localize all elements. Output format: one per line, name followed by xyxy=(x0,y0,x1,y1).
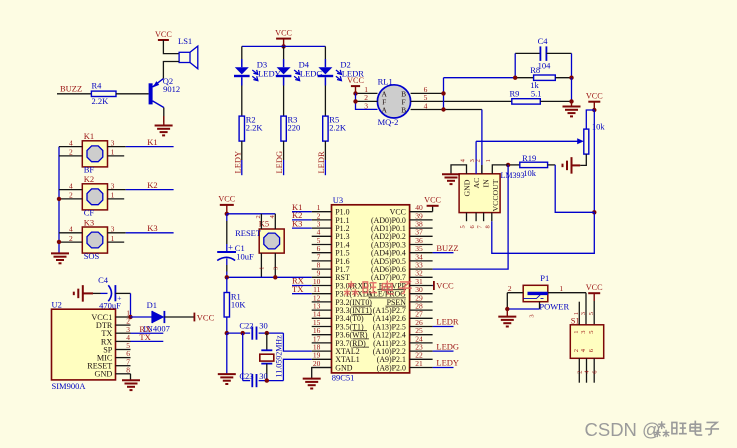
U3 pin 3 (P1.2) xyxy=(312,220,350,234)
ground (Q2 collector) xyxy=(155,116,173,135)
svg-text:21: 21 xyxy=(415,359,423,368)
U3 pin 6 (P1.5) xyxy=(312,244,350,258)
wire R3 to net label LEDG xyxy=(283,141,285,160)
wire VCC to potentiometer xyxy=(586,110,594,129)
svg-text:1: 1 xyxy=(573,312,580,315)
resistor R1 10K xyxy=(224,277,246,333)
wire BUZZ to R4 xyxy=(57,93,91,95)
junction C1 bottom xyxy=(225,275,229,279)
pushbutton K2 (CF) xyxy=(82,174,107,217)
svg-text:A: A xyxy=(381,105,387,114)
net label RX wire xyxy=(292,276,312,286)
svg-text:VCCOUT: VCCOUT xyxy=(491,179,500,211)
U3 pin 20 (GND) xyxy=(312,359,353,373)
svg-text:POWER: POWER xyxy=(539,302,569,312)
S1 top pin stubs xyxy=(573,302,595,334)
wire VCC rail down to R19 node xyxy=(593,110,595,212)
svg-text:(A8)P2.0: (A8)P2.0 xyxy=(377,363,406,372)
wire rail to D3 xyxy=(241,46,243,59)
svg-text:3: 3 xyxy=(273,267,280,270)
wire LM393 out to 89C51 pin33 xyxy=(433,165,509,269)
svg-text:VCC: VCC xyxy=(586,92,603,101)
svg-text:2: 2 xyxy=(69,191,73,200)
junction VCC / R19 xyxy=(592,210,596,214)
junction C23 branch xyxy=(241,331,245,335)
junction K3 rail xyxy=(57,240,61,244)
U3 pin 32 ((AD7)P0.7) xyxy=(371,269,433,283)
module U2 SIM900A xyxy=(52,299,116,390)
svg-text:LEDR: LEDR xyxy=(436,317,459,327)
svg-text:GND: GND xyxy=(463,179,472,196)
svg-text:C4: C4 xyxy=(538,36,549,46)
wire K2 pin4 xyxy=(59,189,82,191)
pin numbers K3 left xyxy=(69,225,73,243)
svg-text:5.1: 5.1 xyxy=(531,89,542,99)
U3 pin 12 (P3.2(INT0)) xyxy=(312,293,373,307)
wire P1 pin1 to S1 xyxy=(548,284,586,325)
svg-text:2: 2 xyxy=(577,370,584,373)
svg-text:1: 1 xyxy=(559,284,563,293)
wire crystal bottom to XTAL1 xyxy=(283,359,311,380)
K5 top pin stubs xyxy=(255,214,276,229)
ground (button rail) xyxy=(51,253,69,263)
wire MQ-2 pin2 xyxy=(356,100,378,102)
U3 pin 10 (P3.0(RXD)) xyxy=(312,277,372,291)
junction pin4 vertical xyxy=(441,107,445,111)
connector P1 POWER xyxy=(523,273,569,311)
svg-text:LEDG: LEDG xyxy=(436,341,459,351)
wire button common rail xyxy=(58,147,60,254)
wire C22 to crystal top node xyxy=(259,332,284,334)
pin numbers K2 left xyxy=(69,181,73,199)
LED D4 LEDG xyxy=(276,59,323,86)
resistor R3 220 xyxy=(281,114,300,141)
svg-text:1: 1 xyxy=(259,267,266,270)
LED D3 LEDY xyxy=(234,59,281,86)
LM393 bottom pin stubs xyxy=(467,213,492,222)
capacitor C22 30 xyxy=(239,321,267,340)
U3 pin 8 (P1.7) xyxy=(312,261,350,275)
svg-text:C4: C4 xyxy=(98,275,109,285)
wire rail to D4 xyxy=(283,46,285,59)
U3 pin 1 (P1.0) xyxy=(312,203,350,217)
net label K3 xyxy=(147,223,157,233)
wire crystal top rail xyxy=(227,332,250,334)
pin numbers K1 left xyxy=(69,138,73,156)
wire K3 pin3 to net label xyxy=(108,232,126,234)
power symbol VCC (MQ-2) xyxy=(347,76,364,94)
resistor R4 2.2K xyxy=(91,81,116,106)
svg-text:11.0592MHz: 11.0592MHz xyxy=(275,335,284,378)
svg-text:K3: K3 xyxy=(84,217,94,227)
capacitor C4 470uF (electrolytic) xyxy=(93,275,131,311)
U3 pin 36 ((AD3)P0.3) xyxy=(371,236,433,250)
wire VCC node to K5 xyxy=(227,213,275,215)
svg-text:5: 5 xyxy=(459,225,466,228)
net label BUZZ (pin35) xyxy=(433,243,459,253)
svg-text:2: 2 xyxy=(475,159,482,162)
wire R5 to net label LEDR xyxy=(324,141,326,160)
svg-text:3: 3 xyxy=(111,138,115,147)
LM393 bottom pin numbers xyxy=(459,225,491,229)
U3 pin 35 ((AD4)P0.4) xyxy=(371,244,433,258)
U3 pin 13 (P3.3(INT1)) xyxy=(312,302,373,316)
ground (U2 GND) xyxy=(122,374,140,390)
net label LEDG (pin23) xyxy=(433,341,459,351)
wire MQ-2 pin5 to R9 xyxy=(411,100,512,102)
pin numbers K3 right xyxy=(111,225,115,243)
junction U2 pin1 xyxy=(128,315,132,319)
svg-text:IN: IN xyxy=(482,179,491,188)
power symbol VCC (reset) xyxy=(218,195,235,214)
junction crystal top xyxy=(265,331,269,335)
svg-text:S1: S1 xyxy=(571,316,580,326)
svg-text:U2: U2 xyxy=(52,299,62,309)
svg-text:TX: TX xyxy=(292,284,303,294)
net label VCC (pin31) xyxy=(433,281,454,291)
svg-text:1: 1 xyxy=(111,148,115,157)
net label RX wire (U2 TX) xyxy=(131,324,164,334)
U3 pin 22 ((A9)P2.1) xyxy=(377,351,433,365)
svg-text:1: 1 xyxy=(485,159,492,162)
resistor R9 5.1 xyxy=(510,89,572,105)
U2 pin 5 (SP) xyxy=(103,341,130,354)
speaker LS1 xyxy=(178,36,198,69)
svg-text:U3: U3 xyxy=(333,195,343,205)
switch S1 xyxy=(570,316,603,359)
wire D2 to R5 xyxy=(324,86,326,117)
wiper arrow xyxy=(577,138,584,144)
watermark red text xyxy=(344,280,412,296)
wire LM393 pin1 to R19 node xyxy=(492,165,508,174)
svg-text:VCC: VCC xyxy=(155,30,172,39)
svg-text:2.2K: 2.2K xyxy=(329,123,347,133)
K5 bottom pin stubs xyxy=(259,253,280,277)
svg-text:GND: GND xyxy=(95,370,113,379)
junction MQ-2 pin1 xyxy=(353,91,357,95)
wire K3 pin2 xyxy=(59,241,82,243)
svg-text:B: B xyxy=(401,105,406,114)
svg-text:C22: C22 xyxy=(239,321,253,331)
resistor R8 1k xyxy=(515,65,571,90)
svg-text:LS1: LS1 xyxy=(178,36,192,46)
capacitor C23 30 xyxy=(239,371,267,387)
wire K1 pin2 xyxy=(59,155,82,157)
wire wiper to LM393 AC xyxy=(476,140,579,142)
svg-text:3: 3 xyxy=(364,101,368,110)
wire C23 branch vertical xyxy=(242,333,244,381)
net label TX wire (U2 RX) xyxy=(131,332,164,342)
svg-text:2: 2 xyxy=(508,284,512,293)
svg-text:C23: C23 xyxy=(239,371,253,381)
svg-text:1: 1 xyxy=(111,191,115,200)
net label LEDR (vertical) xyxy=(316,151,326,174)
U3 pin 37 ((AD2)P0.2) xyxy=(371,228,433,242)
wire D3 to R2 xyxy=(241,86,243,117)
U3 pin 11 (P3.1(TXD)) xyxy=(312,285,372,299)
wire rail to D2 xyxy=(324,46,326,59)
U3 pin 4 (P1.3) xyxy=(312,228,350,242)
LED D2 LEDR xyxy=(318,59,365,86)
svg-text:4: 4 xyxy=(424,101,428,110)
net label TX wire xyxy=(292,284,312,294)
wire R19 right to VCC rail xyxy=(555,165,594,212)
U3 pin 27 ((A14)P2.6) xyxy=(373,310,433,324)
wire D4 to R3 xyxy=(283,86,285,117)
U3 pin 30 (ALE/PROG) xyxy=(367,285,432,299)
U2 pin 6 (MIC) xyxy=(97,349,131,362)
wire loop rail to R8/C4 xyxy=(444,77,516,79)
U2 pin 7 (RESET) xyxy=(87,357,130,370)
svg-text:TX: TX xyxy=(139,332,150,342)
U3 pin 25 ((A12)P2.4) xyxy=(373,326,433,340)
power symbol VCC (speaker supply) xyxy=(155,30,172,40)
svg-text:5: 5 xyxy=(588,331,595,334)
svg-text:3: 3 xyxy=(111,181,115,190)
svg-text:30: 30 xyxy=(259,321,268,331)
wire P1 pin2 to ground xyxy=(507,284,523,309)
svg-text:VCC: VCC xyxy=(197,312,215,322)
wire MQ-2 pin6 xyxy=(411,92,444,94)
pin numbers K2 right xyxy=(111,181,115,199)
wire VCC to speaker pin1 xyxy=(163,40,179,54)
svg-text:10K: 10K xyxy=(231,299,247,309)
svg-text:K2: K2 xyxy=(84,174,94,184)
junction VCC reset xyxy=(225,212,229,216)
wire reset node to U3 RST xyxy=(227,276,312,278)
wire C23 to crystal bottom node xyxy=(259,380,284,382)
U2 pin 1 (VCC1) xyxy=(91,309,130,322)
gas sensor RL1 MQ-2 xyxy=(377,76,410,127)
svg-text:5: 5 xyxy=(588,312,595,315)
svg-text:BUZZ: BUZZ xyxy=(60,84,82,94)
U3 pin 28 ((A15)P2.7) xyxy=(373,302,433,316)
net label K3 wire xyxy=(292,218,312,228)
wire MQ-2 pin1 to VCC xyxy=(356,92,378,94)
svg-text:VCC: VCC xyxy=(586,283,603,292)
junction VCC LED rail xyxy=(281,44,285,48)
U3 overline marks xyxy=(353,290,406,347)
pin numbers K1 right xyxy=(111,138,115,156)
AC ground (pot bottom) xyxy=(563,157,581,174)
U3 pin 38 ((AD1)P0.1) xyxy=(371,220,433,234)
junction R8 left xyxy=(513,76,517,80)
wire C4 left leg xyxy=(514,53,516,77)
wire K1 pin4 xyxy=(59,146,82,148)
junction R1 bottom / crystal rail xyxy=(225,331,229,335)
svg-text:VCC: VCC xyxy=(347,76,364,85)
svg-text:8: 8 xyxy=(485,225,492,228)
diode D1 1N4007 xyxy=(131,300,195,334)
wire C4 to U2 VCC1 xyxy=(130,293,132,317)
resistor R19 10k xyxy=(508,153,555,178)
junction P1 ground node xyxy=(505,307,509,311)
wire K3 pin1 stub xyxy=(108,241,125,243)
svg-text:8: 8 xyxy=(126,365,130,374)
svg-text:BF: BF xyxy=(84,165,95,175)
svg-text:2: 2 xyxy=(69,234,73,243)
svg-text:BUZZ: BUZZ xyxy=(436,243,458,253)
AC ground (C4 input) xyxy=(74,285,93,302)
U3 pin 9 (RST) xyxy=(312,269,350,283)
U3 pin 34 ((AD5)P0.5) xyxy=(371,252,433,266)
svg-text:3: 3 xyxy=(580,312,587,315)
U2 pin 4 (RX) xyxy=(101,333,131,346)
svg-text:LEDY: LEDY xyxy=(232,151,242,174)
wire MQ-2 pin4 xyxy=(411,109,482,111)
svg-text:VCC: VCC xyxy=(424,196,441,205)
junction K5 pin3 xyxy=(273,275,277,279)
svg-text:P1: P1 xyxy=(540,273,549,283)
svg-text:RL1: RL1 xyxy=(378,76,393,86)
svg-text:4: 4 xyxy=(69,181,73,190)
svg-text:1: 1 xyxy=(111,234,115,243)
wire crystal top to XTAL2 xyxy=(283,333,311,351)
U2 pin 2 (DTR) xyxy=(96,317,131,330)
U3 pin 5 (P1.4) xyxy=(312,236,350,250)
svg-text:+: + xyxy=(228,243,233,253)
power symbol VCC (S1) xyxy=(586,283,603,325)
pushbutton K5 RESET xyxy=(235,219,284,254)
wire U3 pin20 GND to ground xyxy=(312,368,332,379)
wire LED supply rail xyxy=(242,45,326,47)
svg-text:VCC: VCC xyxy=(218,195,235,204)
wire Q2 collector to ground xyxy=(163,108,165,123)
junction R19 left node xyxy=(506,163,510,167)
svg-text:K1: K1 xyxy=(147,137,157,147)
net label LEDR (pin26) xyxy=(433,317,459,327)
wire pin6/pin4 vertical to feedback loop xyxy=(443,78,445,110)
svg-text:89C51: 89C51 xyxy=(332,373,355,383)
svg-text:10uF: 10uF xyxy=(236,252,254,262)
svg-text:4: 4 xyxy=(69,225,73,234)
wire R2 to net label LEDY xyxy=(241,141,243,160)
potentiometer 10k xyxy=(584,121,606,154)
net label K1 xyxy=(147,137,157,147)
svg-text:2.2K: 2.2K xyxy=(246,123,264,133)
wire K1 pin3 to net label xyxy=(108,146,126,148)
power symbol VCC (comparator rail) xyxy=(586,92,603,111)
svg-text:+: + xyxy=(117,293,121,302)
svg-text:SOS: SOS xyxy=(84,251,100,261)
U3 pin 21 ((A8)P2.0) xyxy=(377,359,433,373)
crystal Y1 11.0592MHz xyxy=(260,333,284,381)
junction VCC rail top xyxy=(592,108,596,112)
pushbutton K3 (SOS) xyxy=(82,217,107,260)
svg-text:2: 2 xyxy=(69,148,73,157)
S1 bottom pin stubs xyxy=(573,348,599,382)
resistor R5 2.2K xyxy=(323,114,347,141)
svg-text:1: 1 xyxy=(573,331,580,334)
U3 pin 39 ((AD0)P0.0) xyxy=(371,211,433,225)
U3 pin 17 (P3.7(RD)) xyxy=(312,334,366,348)
wire speaker pin2 to Q2 emitter xyxy=(163,62,179,79)
transistor Q2 9012 (PNP) xyxy=(151,76,181,108)
resistor R2 2.2K xyxy=(239,114,263,141)
svg-text:CF: CF xyxy=(84,208,95,218)
svg-text:2: 2 xyxy=(573,349,580,352)
wire C4 right leg xyxy=(571,53,573,77)
svg-text:K3: K3 xyxy=(147,223,157,233)
U3 pin 31 (EA/VPP) xyxy=(379,277,433,291)
pin numbers MQ-2 right xyxy=(424,85,428,110)
ground (LM393 GND) xyxy=(442,174,460,184)
wire R8/R9 right junction xyxy=(571,78,573,102)
svg-text:R19: R19 xyxy=(522,153,536,163)
LM393 top pin numbers xyxy=(459,158,492,162)
U3 pin 24 ((A11)P2.3) xyxy=(373,334,433,348)
svg-text:LM393: LM393 xyxy=(501,171,525,180)
net label LEDG (vertical) xyxy=(274,151,284,174)
microcontroller U3 89C51 xyxy=(332,195,410,382)
U3 pin 16 (P3.6(WR)) xyxy=(312,326,368,340)
U3 pin 33 ((AD6)P0.6) xyxy=(371,261,433,275)
pushbutton K1 (BF) xyxy=(82,131,107,174)
U3 pin 26 ((A13)P2.5) xyxy=(373,318,433,332)
capacitor C4 104 xyxy=(515,36,571,70)
svg-text:VCC: VCC xyxy=(275,28,292,37)
ground (P1) xyxy=(498,309,516,327)
svg-text:K2: K2 xyxy=(147,180,157,190)
net label K2 xyxy=(147,180,157,190)
comparator U? LM393 xyxy=(459,171,524,212)
U3 pin 2 (P1.1) xyxy=(312,211,350,225)
power symbol VCC (U3 pin40) xyxy=(424,196,441,212)
wire LM393 pin2 IN stub xyxy=(481,165,483,174)
U3 pin 15 (P3.5(T1)) xyxy=(312,318,364,332)
U3 pin 18 (XTAL2) xyxy=(312,343,360,357)
junction R8 right xyxy=(569,76,573,80)
svg-text:CSDN @: CSDN @ xyxy=(585,419,661,440)
ground (R9 node) xyxy=(563,101,581,116)
wire pot bottom to AC ground xyxy=(580,154,586,165)
ground (crystal common) xyxy=(218,333,236,384)
svg-text:LEDG: LEDG xyxy=(274,151,284,174)
svg-text:AC: AC xyxy=(472,178,481,189)
wire LM393 pin3 AC up xyxy=(475,141,477,174)
U3 pin 40 (VCC) xyxy=(390,203,433,217)
svg-text:LEDR: LEDR xyxy=(316,151,326,174)
svg-text:9012: 9012 xyxy=(163,84,180,94)
U2 pin 8 (GND) xyxy=(95,365,131,378)
svg-text:MQ-2: MQ-2 xyxy=(378,117,399,127)
svg-text:2: 2 xyxy=(255,215,262,218)
net label LEDY (pin21) xyxy=(433,358,459,368)
wire crystal bottom rail xyxy=(243,380,250,382)
svg-text:3: 3 xyxy=(111,225,115,234)
junction MQ-2 pin2 xyxy=(353,99,357,103)
net label K1 wire xyxy=(292,202,312,212)
svg-text:SIM900A: SIM900A xyxy=(52,381,87,391)
wire K3 pin4 xyxy=(59,232,82,234)
svg-text:4: 4 xyxy=(69,138,73,147)
U2 pin 3 (TX) xyxy=(101,325,130,338)
svg-text:20: 20 xyxy=(313,359,321,368)
svg-text:220: 220 xyxy=(288,123,301,133)
svg-text:R9: R9 xyxy=(510,89,520,99)
svg-text:GND: GND xyxy=(335,363,352,372)
wire MQ-2 pin2/pin3 common xyxy=(356,93,378,109)
svg-text:R8: R8 xyxy=(530,65,540,75)
wire K1 pin1 stub xyxy=(108,155,125,157)
wire R4 to Q2 base xyxy=(116,93,149,95)
svg-text:3: 3 xyxy=(528,314,535,317)
U3 pin 14 (P3.4(T0)) xyxy=(312,310,364,324)
U3 pin 23 ((A10)P2.2) xyxy=(373,343,433,357)
svg-text:3: 3 xyxy=(580,331,587,334)
wire LM393 pin4 to ground xyxy=(451,165,467,174)
svg-text:10k: 10k xyxy=(523,168,537,178)
